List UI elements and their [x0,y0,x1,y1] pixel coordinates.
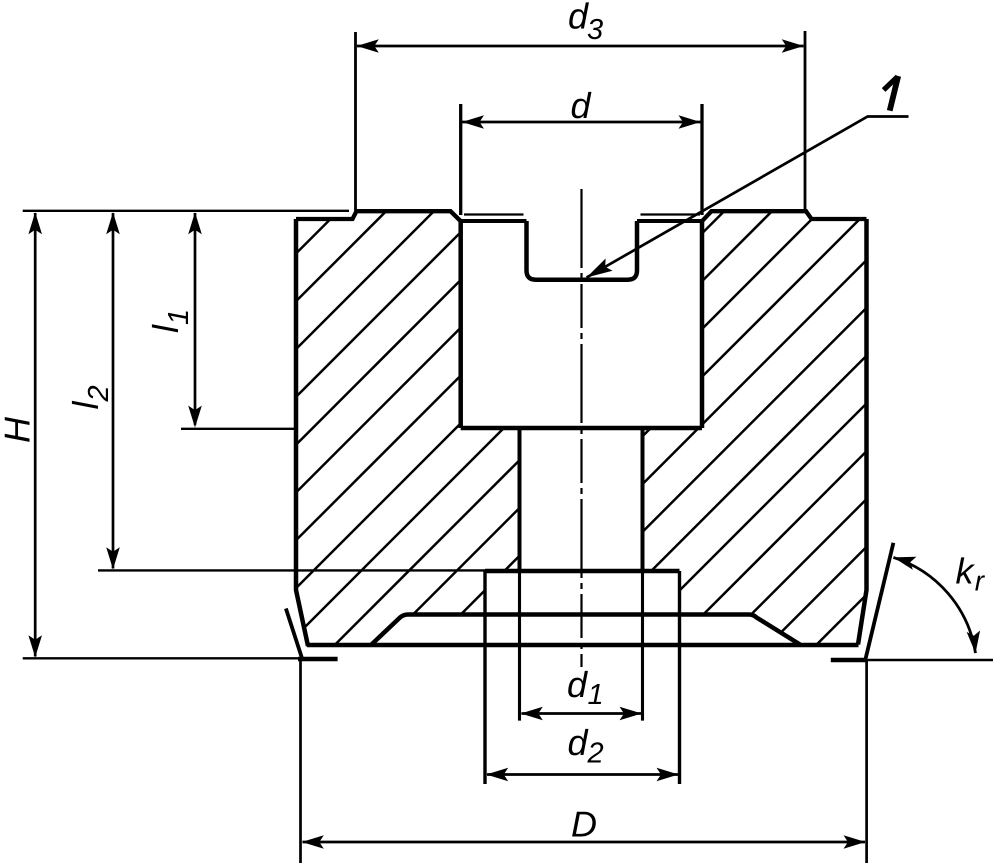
screw head top (seat line) [485,569,680,574]
k_r baseline (right) [867,659,993,661]
d1 left arrow [521,707,543,721]
D extension lines [301,659,867,863]
k_r arc bottom arrow [967,631,981,654]
top profile right: bore chamfer, boss top, step, rim top [702,211,867,221]
recessed bottom face with chamfers [372,615,801,645]
l2 top arrow [106,212,120,234]
d left arrow [462,115,484,129]
d2 left arrow [486,768,508,782]
d right arrow [679,115,701,129]
d1 dimension line [522,712,642,715]
d1 right arrow [620,707,642,721]
d2 dimension line [487,773,678,776]
bottom rim line [307,643,859,648]
leader line for item 1 [587,117,909,278]
svg-text:d: d [571,85,592,126]
k_r arc top arrow [893,557,916,570]
svg-text:1: 1 [588,679,604,711]
top profile left: rim top, step, boss top, bore entrance chamfer [296,211,461,221]
svg-text:d: d [568,0,589,36]
d1 extension lines [520,571,643,721]
right cutting edge line (k_r reference) [865,543,894,662]
central bore d: walls and bottom [461,221,702,428]
svg-text:d: d [568,722,589,763]
H bottom extension line [23,657,300,659]
screw stem walls [520,428,643,571]
svg-text:k: k [956,550,976,591]
H/l1/l2 top extension line [23,210,349,212]
D right arrow [844,835,866,849]
l1 bottom arrow [188,406,202,428]
d3 left arrow [357,39,379,53]
left tooth tip tick [298,657,338,662]
D dimension line [303,841,866,844]
d2 right arrow [657,768,679,782]
d3 extension lines [356,31,806,211]
d extension lines [461,104,702,215]
hatching of sectioned body [296,211,867,645]
d3 right arrow [782,39,804,53]
D left arrow [302,835,324,849]
label 1 (callout) [890,76,899,111]
leader 1 arrow [587,259,613,278]
centerline (axis) [580,189,582,667]
l1 top arrow [188,212,202,234]
svg-text:2: 2 [587,738,604,770]
l1 dimension line [194,213,197,425]
lip thick line at bore entrance [461,219,702,223]
l2 dimension line [112,213,115,569]
svg-text:D: D [571,804,597,845]
H bottom arrow [28,635,42,657]
H top arrow [28,212,42,234]
d dimension line [462,121,701,124]
body outline (cutter body section) [286,211,894,662]
l1 extension line [181,428,296,430]
right tooth tip tick [831,658,867,663]
k_r angle arc [893,557,975,653]
left cutting edge tick [286,609,303,662]
svg-text:d: d [567,664,588,705]
H dimension line [34,213,37,657]
screw head sides [485,571,680,615]
d3 dimension line [357,45,804,48]
l2 extension line [98,569,486,571]
svg-text:3: 3 [587,14,603,46]
drive slot U-shape [527,221,638,280]
left outer edge with bottom slant [296,219,308,646]
d2 extension lines [485,615,680,785]
svg-text:H: H [0,416,38,443]
right outer edge with bottom slant [858,219,867,645]
lip thin line at bore entrance [464,213,700,215]
l2 bottom arrow [106,547,120,569]
